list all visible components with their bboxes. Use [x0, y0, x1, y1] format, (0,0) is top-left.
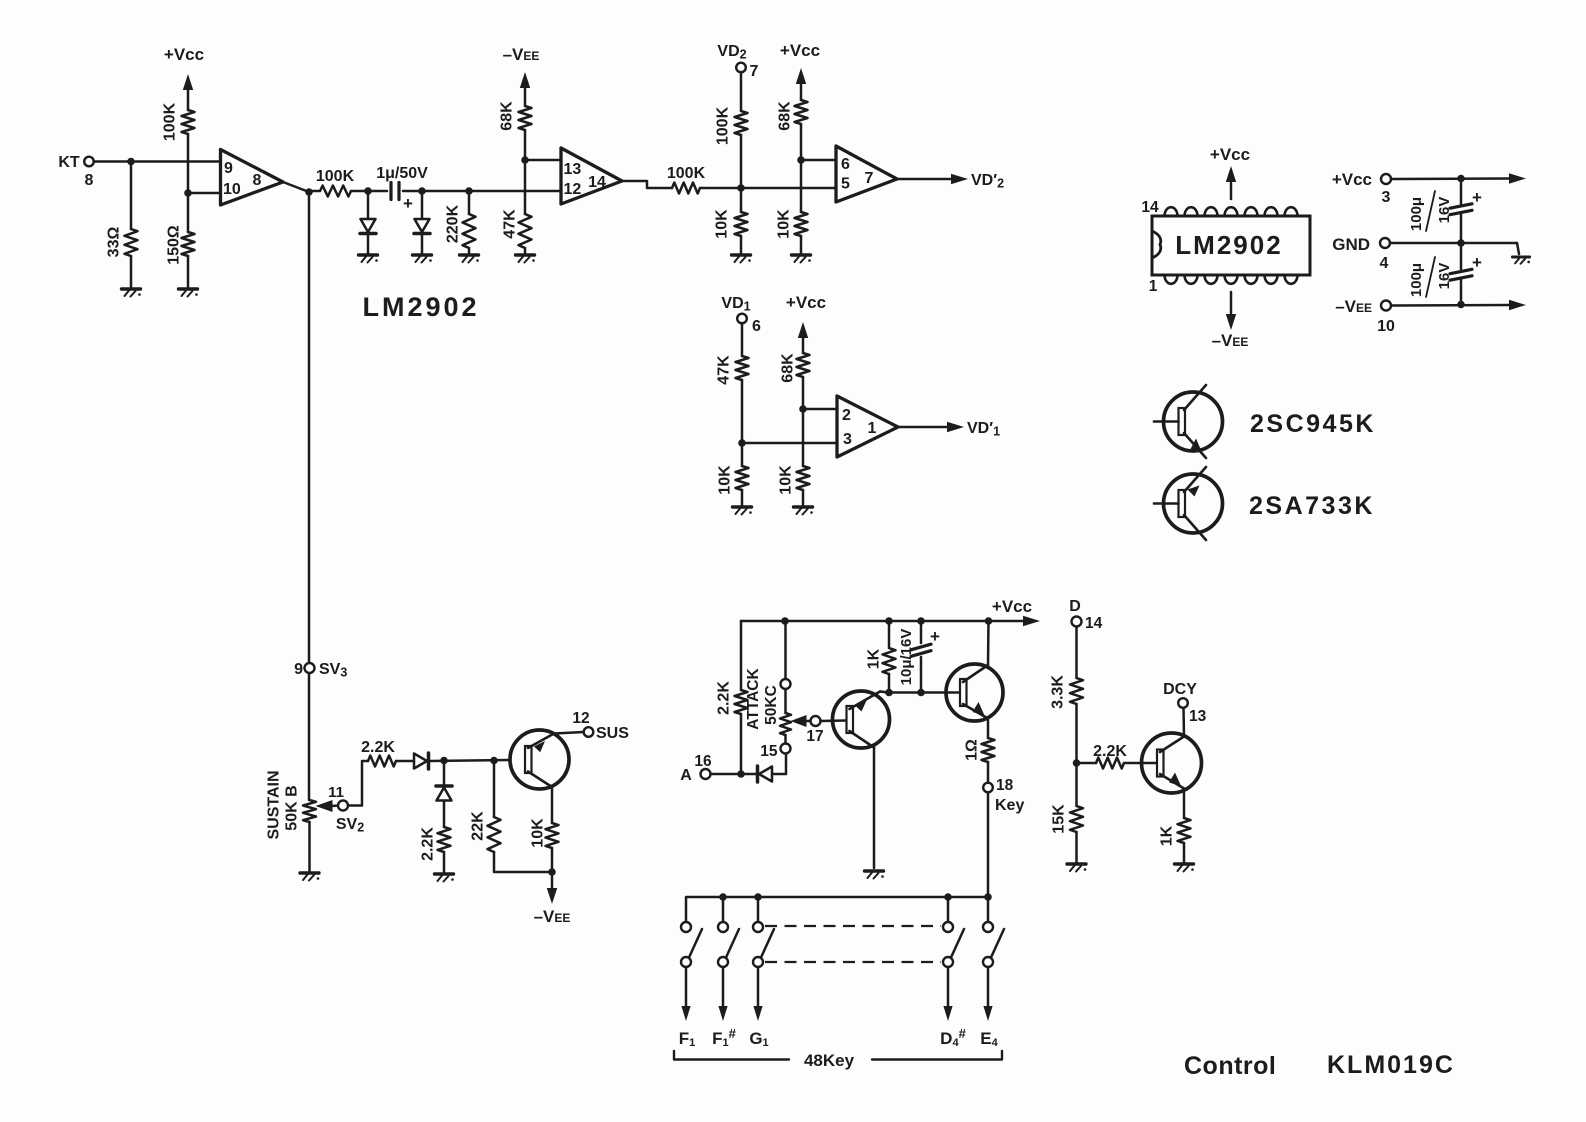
op-amp U1C (pins 9,10,8) [221, 150, 284, 206]
resistor 100K (to +Vcc) [182, 110, 195, 134]
svg-text:13: 13 [1189, 708, 1207, 725]
node SV2 pin 11 (wiper) [338, 801, 348, 811]
svg-text:10K: 10K [529, 818, 546, 848]
svg-text:12: 12 [572, 710, 589, 727]
wire Key to keyboard bus [987, 793, 990, 898]
ground [179, 287, 198, 290]
Q1 collector lead to ground [850, 731, 875, 748]
transistor Q1 (PNP attack) [833, 691, 890, 748]
svg-text:10K: 10K [777, 465, 794, 495]
transistor symbol 2SC945K (NPN) [1164, 392, 1223, 451]
ground [792, 253, 811, 256]
resistor 1Ω (emitter) [982, 738, 995, 762]
svg-text:1: 1 [1149, 278, 1158, 295]
svg-text:15K: 15K [1050, 804, 1067, 834]
svg-text:33Ω: 33Ω [105, 227, 122, 258]
resistor 220K to ground [468, 191, 471, 214]
junction [127, 158, 135, 166]
junction main/VD2 [737, 184, 745, 192]
junction pin 3 node [738, 439, 746, 447]
svg-text:KLM019C: KLM019C [1327, 1051, 1455, 1079]
svg-text:100K: 100K [161, 102, 178, 141]
ground [733, 505, 752, 508]
svg-text:48Key: 48Key [804, 1051, 855, 1070]
svg-text:50KC: 50KC [763, 685, 780, 725]
wire to op-amp pin 6 [801, 159, 836, 162]
ground [794, 505, 813, 508]
svg-text:4: 4 [1380, 255, 1389, 272]
potentiometer ATTACK 50KC [784, 689, 787, 713]
wire KT to op-amp pin 9 [94, 160, 221, 163]
svg-text:6: 6 [752, 318, 761, 335]
emitter lead to SUS node [528, 734, 554, 749]
DCY collector lead to node 13 [1160, 737, 1184, 753]
svg-text:9: 9 [224, 160, 233, 177]
node Key pin 18 [983, 783, 993, 793]
resistor 3.3K [1070, 678, 1083, 704]
diode clamp (cathode up) [443, 761, 446, 787]
junction pin 2 node [799, 405, 807, 413]
ground [1175, 862, 1194, 865]
key switch F1# [718, 922, 728, 932]
node pot low terminal pin 15 [781, 744, 791, 754]
wire bus to 2.2K (left branch) [740, 621, 743, 690]
resistor 150Ω (to ground) [187, 193, 190, 232]
transistor symbol 2SA733K (PNP) [1164, 474, 1223, 533]
junction bus/1K [885, 617, 893, 625]
resistor 47K (VD1 divider) [736, 356, 749, 380]
svg-text:+: + [930, 627, 940, 646]
resistor 10K (stage 4 to ground) [797, 466, 810, 490]
svg-text:220K: 220K [444, 204, 461, 243]
Q2 emitter lead down [963, 704, 988, 719]
wire main line to op-amp pin 12 [469, 190, 561, 193]
svg-text:14: 14 [1141, 199, 1159, 216]
svg-text:12: 12 [564, 181, 582, 198]
svg-text:68K: 68K [776, 101, 793, 131]
junction 22K [490, 757, 498, 765]
wire output to VD'2 arrow [897, 178, 952, 181]
svg-text:10: 10 [223, 181, 241, 198]
svg-text:+: + [403, 194, 413, 213]
svg-text:ATTACK: ATTACK [745, 667, 762, 729]
svg-text:1: 1 [868, 420, 877, 437]
svg-text:13: 13 [564, 161, 582, 178]
svg-text:16: 16 [694, 753, 712, 770]
resistor 1K (Q1 load) [888, 621, 891, 648]
svg-text:3: 3 [843, 431, 852, 448]
svg-text:14: 14 [1085, 615, 1103, 632]
wire diode to transistor base [430, 760, 510, 761]
wire wiper to Q1 base [821, 719, 847, 722]
diode D1 to ground [367, 191, 370, 219]
key switch E4 [983, 922, 993, 932]
wire key column stub [722, 897, 725, 922]
wire VD2 down [740, 72, 743, 111]
resistor 33Ω (KT to ground) [130, 162, 133, 230]
wire op-amp output node down to sustain pot [308, 192, 311, 800]
wire output to VD'1 arrow [898, 426, 948, 429]
svg-text:5: 5 [841, 176, 850, 193]
svg-text:68K: 68K [779, 353, 796, 383]
resistor 10K (stage 3 to ground) [795, 212, 808, 236]
svg-text:100K: 100K [714, 106, 731, 145]
ground [300, 871, 319, 874]
wire 3.3K to base node [1075, 704, 1078, 763]
svg-text:LM2902: LM2902 [1175, 230, 1282, 260]
svg-text:16V: 16V [1436, 197, 1453, 224]
wire op-amp output to node [283, 182, 309, 192]
svg-text:LM2902: LM2902 [362, 292, 479, 322]
wire key column stub [947, 897, 950, 922]
ground [732, 253, 751, 256]
resistor 2.2K (A node pull-up) [735, 690, 748, 714]
svg-text:15: 15 [760, 743, 778, 760]
key switch G1 [753, 922, 763, 932]
wire -VEE rail [1391, 304, 1510, 307]
svg-text:7: 7 [750, 63, 759, 80]
resistor 10K (SUS emitter?) [546, 823, 559, 848]
resistor 100K (series, stage 3) [672, 183, 700, 194]
resistor 68K (stage 3) [795, 100, 808, 124]
ground [122, 287, 141, 290]
48Key bracket [674, 1051, 789, 1060]
svg-text:D: D [1069, 598, 1081, 615]
svg-text:1K: 1K [865, 648, 882, 669]
junction base node [1073, 759, 1081, 767]
svg-text:Key: Key [995, 797, 1024, 814]
resistor 15K (to ground) [1075, 763, 1078, 806]
keyboard bus wire [686, 897, 988, 922]
svg-text:2.2K: 2.2K [361, 739, 395, 756]
power -VEE arrow (IC) [1230, 292, 1233, 313]
resistor 2.2K (sustain series) [368, 756, 396, 767]
svg-text:SUSTAIN: SUSTAIN [265, 770, 282, 839]
resistor 68K (to -VEE) [519, 106, 532, 130]
wire to diode [396, 760, 414, 763]
svg-text:+Vcc: +Vcc [164, 45, 204, 64]
op-amp U1B (pins 6,5,7) [836, 146, 897, 202]
svg-text:1Ω: 1Ω [963, 739, 980, 761]
svg-text:+Vcc: +Vcc [1210, 145, 1250, 164]
wire down to 10K [802, 409, 805, 466]
svg-text:150Ω: 150Ω [165, 225, 182, 265]
wire to op-amp pin 10 [188, 192, 220, 195]
capacitor 100μ/16V (lower) [1460, 243, 1463, 269]
DCY emitter lead down [1160, 774, 1184, 789]
op-amp U1A (pins 2,3,1) [837, 396, 898, 457]
svg-text:2SC945K: 2SC945K [1250, 410, 1376, 438]
collector lead down [528, 772, 552, 788]
IC bottom pins (bumps) [1165, 275, 1298, 284]
wire to pin 3 node [741, 380, 744, 443]
resistor 100K (VD2 divider) [735, 111, 748, 135]
junction clamp diode [440, 757, 448, 765]
wire cap to -VEE rail [1460, 280, 1463, 305]
svg-text:+: + [1472, 188, 1482, 207]
wire down to 10K [800, 160, 803, 212]
svg-text:47K: 47K [501, 209, 518, 239]
svg-text:22K: 22K [469, 811, 486, 841]
svg-text:2: 2 [842, 407, 851, 424]
ground [413, 253, 432, 256]
wire cap to GND rail [1460, 214, 1463, 243]
resistor 10K (VD1 divider to ground) [741, 443, 744, 466]
junction cap node [917, 689, 925, 697]
junction key column E4 [984, 893, 992, 901]
resistor 68K (stage 4) [797, 353, 810, 377]
potentiometer SUSTAIN 50KB [303, 800, 316, 822]
capacitor 1μ/50V [368, 190, 387, 193]
wire 68K to pin 2 node [802, 377, 805, 409]
svg-text:10μ/16V: 10μ/16V [898, 629, 915, 686]
svg-text:100μ: 100μ [1408, 263, 1425, 297]
svg-text:11: 11 [328, 784, 344, 801]
svg-text:3: 3 [1382, 189, 1391, 206]
svg-text:Control: Control [1184, 1052, 1276, 1080]
junction key column [719, 893, 727, 901]
svg-text:2.2K: 2.2K [419, 827, 436, 861]
svg-text:2.2K: 2.2K [1093, 743, 1127, 760]
junction -VEE/cap [1457, 301, 1465, 309]
dashed continuation (top row) [765, 925, 941, 927]
Q1 emitter lead (up to 1K node) [850, 692, 881, 710]
wire GND rail [1390, 242, 1517, 245]
svg-text:7: 7 [865, 170, 874, 187]
junction 220K [465, 187, 473, 195]
wire 22K to bottom rail [494, 852, 550, 872]
svg-text:1K: 1K [1158, 825, 1175, 846]
resistor 2.2K (clamp to ground) [438, 827, 451, 852]
wire pin 3 node to op-amp [742, 442, 837, 445]
svg-text:10K: 10K [775, 209, 792, 239]
wire op-amp output [622, 181, 672, 188]
node SUS pin 12 [584, 727, 594, 737]
diode D2 to ground [421, 191, 424, 219]
IC top pins (bumps) [1165, 207, 1298, 216]
svg-text:8: 8 [85, 172, 94, 189]
junction A node [737, 770, 745, 778]
junction bus/pot [781, 617, 789, 625]
key switch D4# [943, 922, 953, 932]
wire main line to op-amp pin 5 [741, 187, 836, 190]
wire to op-amp pin 13 [525, 159, 561, 162]
junction -VEE node [548, 868, 556, 876]
svg-text:2SA733K: 2SA733K [1249, 492, 1375, 520]
junction GND/caps [1457, 239, 1465, 247]
svg-text:A: A [680, 767, 692, 784]
node pot top terminal [781, 679, 791, 689]
svg-text:8: 8 [253, 172, 262, 189]
junction diode D2 [418, 187, 426, 195]
junction key column [944, 893, 952, 901]
svg-text:+: + [1472, 253, 1482, 272]
resistor 100K (series to cap) [309, 190, 319, 193]
resistor 22K (base to emitter rail) [493, 761, 496, 818]
wire 68K to pin 6 node [800, 124, 803, 160]
wire +Vcc rail [1391, 177, 1510, 180]
svg-text:6: 6 [841, 156, 850, 173]
Q2 collector lead to +Vcc bus [963, 665, 988, 682]
key switch F1 [681, 922, 691, 932]
ground [1067, 862, 1086, 865]
wire to 220K [422, 190, 469, 193]
transistor Q2 (NPN key driver) [946, 664, 1003, 721]
wire VD1 down [741, 323, 744, 356]
svg-text:KT: KT [58, 154, 80, 171]
svg-text:10K: 10K [716, 465, 733, 495]
svg-text:68K: 68K [498, 101, 515, 131]
wire 1K node to Q2 base [889, 691, 960, 694]
ground [1512, 255, 1529, 258]
wire key column stub [757, 897, 760, 922]
svg-text:47K: 47K [715, 355, 732, 385]
wire 1Ω to Key node [987, 762, 990, 783]
wire 10K to -VEE node [551, 848, 554, 872]
svg-text:+Vcc: +Vcc [780, 41, 820, 60]
svg-text:50K B: 50K B [283, 785, 300, 830]
resistor 2.2K (DCY base) [1096, 758, 1124, 769]
power +Vcc bus (attack) [741, 620, 1024, 623]
svg-text:10K: 10K [713, 209, 730, 239]
svg-text:100μ: 100μ [1408, 197, 1425, 231]
wire 68K to pin 13 node [524, 130, 527, 160]
capacitor 10μ/16V (attack) [920, 621, 923, 643]
wire diode to pot bottom terminal [772, 754, 786, 775]
dashed continuation (bottom row) [765, 961, 941, 963]
op-amp U1D (pins 13,12,14) [561, 148, 622, 204]
junction key column [754, 893, 762, 901]
node wiper pin 17 [811, 716, 821, 726]
svg-text:100K: 100K [316, 168, 355, 185]
wire to main node [740, 135, 743, 188]
wire down across main line [524, 160, 527, 214]
svg-text:GND: GND [1332, 235, 1370, 254]
junction diode D1 [364, 187, 372, 195]
svg-text:16V: 16V [1436, 263, 1453, 290]
svg-text:14: 14 [588, 174, 606, 191]
junction 1K/Q1/wire [885, 689, 893, 697]
junction +Vcc/cap [1457, 175, 1465, 183]
ground [435, 872, 454, 875]
ground [865, 869, 884, 872]
wire pot to ground [308, 822, 311, 871]
svg-text:9: 9 [294, 661, 303, 678]
junction bus/cap [917, 617, 925, 625]
ground [359, 253, 378, 256]
capacitor 100μ/16V (upper) [1460, 179, 1463, 205]
power -VEE arrow (sustain) [551, 872, 554, 888]
junction bus/Q2 collector [985, 617, 993, 625]
svg-text:18: 18 [996, 777, 1014, 794]
node DCY pin 13 [1178, 698, 1188, 708]
svg-text:100K: 100K [667, 165, 706, 182]
wire 100K to input node [187, 134, 190, 193]
transistor SUS (PNP) [510, 730, 569, 789]
svg-text:3.3K: 3.3K [1049, 675, 1066, 709]
svg-text:1μ/50V: 1μ/50V [376, 165, 428, 182]
junction pin 13 node [521, 156, 529, 164]
wire SV2 to 2.2K resistor [348, 761, 368, 806]
wire 2.2K to A node [740, 714, 743, 774]
transistor DCY (NPN) [1142, 733, 1202, 793]
svg-text:+Vcc: +Vcc [1332, 170, 1372, 189]
resistor 1K (DCY emitter) [1178, 818, 1191, 843]
wire bus to pot top terminal [784, 621, 787, 679]
resistor 10K (VD2 divider, to ground) [740, 188, 743, 212]
svg-text:DCY: DCY [1163, 681, 1197, 698]
ground [516, 253, 535, 256]
ground [460, 253, 479, 256]
svg-text:17: 17 [806, 728, 823, 745]
wire key column stub E4 [987, 897, 990, 922]
svg-text:+Vcc: +Vcc [992, 597, 1032, 616]
junction pin 6 node [797, 156, 805, 164]
wire D down [1075, 627, 1078, 679]
svg-text:SUS: SUS [596, 725, 629, 742]
junction output node [305, 188, 313, 196]
node SV3 pin 9 [305, 663, 315, 673]
diode (A to attack pot, cathode left) [759, 767, 772, 782]
svg-text:10: 10 [1377, 318, 1395, 335]
wire A to junction [711, 773, 757, 776]
diode (sustain series) [414, 754, 427, 769]
wire GND to ground symbol [1517, 243, 1519, 254]
wire to op-amp pin 2 [803, 408, 837, 411]
resistor 47K to ground [519, 214, 532, 248]
IC LM2902 package body [1152, 216, 1310, 275]
svg-text:+Vcc: +Vcc [786, 293, 826, 312]
svg-text:2.2K: 2.2K [715, 681, 732, 715]
junction 150Ω / pin 10 [184, 189, 192, 197]
